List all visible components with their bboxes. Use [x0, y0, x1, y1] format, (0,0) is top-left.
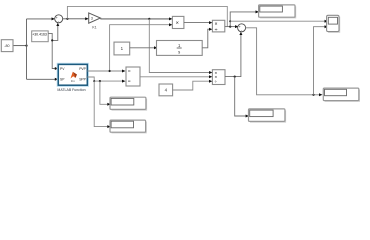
wire bus bottom to U1 SP input pin — [27, 78, 59, 81]
scope S2 — [327, 15, 340, 32]
display D2 — [259, 5, 296, 18]
transfer fcn B1 value 1/s — [157, 41, 203, 56]
wire node G up to scope S2 input 2 — [314, 25, 329, 95]
subtract block M1 — [126, 67, 140, 86]
display D3 — [110, 97, 147, 110]
wire divide P3 output to sum S2 left input — [225, 25, 239, 28]
node E junction on P3 output — [229, 26, 231, 28]
svg-text:-80: -80 — [4, 44, 9, 48]
wire M1 output to product P2 input 2 — [140, 75, 212, 78]
wire PVP tap up to product P1 input 2 — [110, 23, 173, 71]
node K junction on P2 output — [234, 76, 236, 78]
sum S1 — [55, 15, 63, 24]
wire feedback top loop from node B to divide P3 output net — [67, 6, 227, 26]
constant C1 value -80 — [1, 40, 13, 52]
svg-text:PVP: PVP — [79, 67, 86, 71]
constant C3 value 4 — [159, 84, 173, 96]
MATLAB Function block U1 — [57, 64, 87, 92]
svg-text:K1: K1 — [92, 25, 96, 29]
wire node E up to display D2 input — [230, 10, 259, 26]
svg-text:3: 3 — [91, 17, 93, 21]
node F junction on scope feed — [229, 20, 231, 22]
wire C1 output to node A — [13, 45, 27, 47]
product P2 — [212, 70, 225, 85]
wire sum S1 output to gain K1 — [63, 17, 89, 20]
display D1 value +30.4163 — [32, 31, 49, 42]
wire constant C3 output up to product P2 input 3 — [173, 80, 213, 90]
wire U1 SPP output to M1 input 2 — [87, 77, 125, 83]
svg-text:×: × — [176, 20, 179, 26]
node G junction on D6 feed — [312, 94, 314, 96]
node B junction on S1 output — [66, 18, 68, 20]
wire node F long line to scope S2 input 1 — [230, 20, 328, 23]
divide P3 — [212, 20, 224, 33]
svg-text:SPP: SPP — [79, 78, 86, 82]
product P1 — [172, 16, 184, 28]
wire U1 PVP output to M1 input 1 — [87, 70, 125, 73]
display D4 — [110, 120, 146, 133]
sum S2 — [238, 24, 246, 33]
wire node I down to display D3 input — [100, 81, 111, 106]
wire sum S2 output loop to display D6 input — [246, 28, 323, 97]
svg-text:MATLAB Function: MATLAB Function — [57, 88, 85, 92]
wire transfer fcn B1 output up to divide P3 input 2 — [202, 28, 212, 48]
wire gain K1 output to product P1 input 1 — [100, 17, 172, 20]
wire node D to sum S1 bottom input — [52, 23, 59, 41]
wire constant C2 to transfer fcn B1 input — [130, 46, 158, 49]
wire node K down to display D5 input — [235, 77, 249, 118]
constant C2 value 1 — [114, 42, 130, 55]
wire tap from node C down to product P2 input 1 — [149, 19, 212, 74]
wire display D1 stub down to U1 PV input pin — [48, 33, 58, 70]
wire vertical bus from node A — [26, 19, 28, 79]
wire product P1 output to divide P3 input 1 — [184, 21, 213, 24]
node I junction on SPP line — [99, 80, 101, 82]
node A junction on C1 output — [25, 45, 27, 47]
node C junction tap on K1 output — [148, 18, 150, 20]
svg-text:+30.4163: +30.4163 — [32, 32, 47, 36]
display D5 — [249, 109, 286, 122]
display D6 — [323, 88, 359, 101]
svg-text:s: s — [178, 49, 180, 54]
wire bus top to sum S1 left input — [27, 17, 56, 20]
node H junction on PVP output — [109, 70, 111, 72]
node J junction on SPP corner — [93, 80, 95, 82]
node D junction on display net — [51, 39, 53, 41]
wire product P2 output to sum S2 bottom input — [225, 32, 242, 77]
wire node J down to display D4 input — [94, 81, 110, 128]
svg-text:fcn: fcn — [71, 79, 75, 83]
gain K1 value 3 — [89, 13, 101, 29]
svg-text:÷: ÷ — [215, 27, 218, 33]
